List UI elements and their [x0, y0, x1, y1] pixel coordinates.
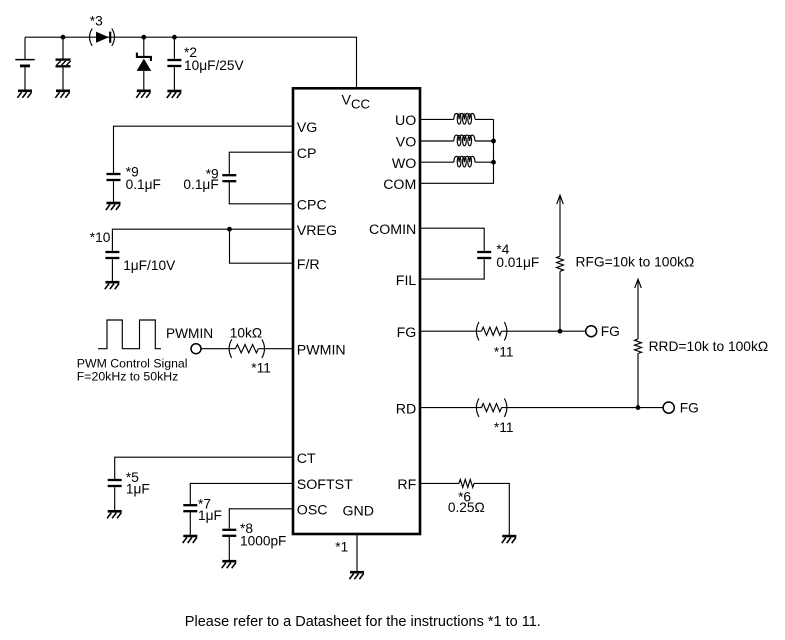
svg-text:WO: WO: [392, 156, 416, 172]
wire L3 to motor common: [475, 161, 494, 163]
svg-text:UO: UO: [395, 113, 416, 129]
node F (W phase junction): [491, 160, 496, 165]
svg-text:FG: FG: [397, 325, 417, 341]
IC U1 body: [293, 88, 420, 534]
capacitor C2 *2 10uF/25V: [173, 37, 175, 59]
ground (GND pin): [349, 572, 364, 579]
svg-text:1μF: 1μF: [126, 481, 150, 496]
svg-text:1μF/10V: 1μF/10V: [123, 258, 176, 273]
resistor R6 *6 0.25 ohm: [459, 479, 474, 487]
svg-text:CPC: CPC: [297, 198, 327, 214]
svg-text:VG: VG: [297, 120, 318, 136]
svg-text:RF: RF: [397, 477, 416, 493]
node H (RD/RRD junction): [636, 405, 641, 410]
capacitor C5 *10 1uF/10V: [105, 252, 119, 258]
node B (rail/zener junction): [141, 35, 146, 40]
wire CT pin: [115, 457, 293, 479]
svg-text:1μF: 1μF: [198, 508, 222, 523]
wire UO pin: [420, 118, 454, 120]
node G (FG/RFG junction): [558, 329, 563, 334]
wire R4 to RD terminal: [502, 407, 664, 409]
node D (VREG/FR junction): [227, 227, 232, 232]
wire F/R pin: [230, 229, 294, 263]
capacitor C7 *7 1uF: [183, 505, 197, 511]
capacitor C8 *8 1000pF: [222, 530, 236, 536]
svg-text:VO: VO: [396, 135, 417, 151]
inductor L2 (motor V phase): [454, 135, 475, 146]
svg-text:GND: GND: [343, 503, 375, 519]
svg-text:0.25Ω: 0.25Ω: [448, 500, 485, 515]
svg-text:F/R: F/R: [297, 257, 320, 273]
wire VG pin: [114, 126, 294, 173]
capacitor C3 *9 0.1uF: [107, 174, 121, 180]
ground (RF): [502, 536, 517, 543]
svg-text:SOFTST: SOFTST: [297, 477, 353, 493]
ground (C3): [106, 203, 121, 210]
PWM square wave source: [98, 320, 161, 349]
resistor R4 *11 (RD, in parentheses): [476, 398, 479, 417]
zener diode D2: [143, 37, 145, 57]
wire R2 to FG terminal: [502, 330, 586, 332]
svg-text:*11: *11: [494, 420, 514, 435]
node E (V phase junction): [491, 139, 496, 144]
resistor R1 10kOhm *11: [229, 339, 232, 358]
svg-text:10μF/25V: 10μF/25V: [184, 58, 244, 73]
wire RF pin: [420, 482, 459, 484]
capacitor C6 *5 1uF: [108, 480, 122, 486]
ground (C6): [107, 511, 122, 518]
inductor L1 (motor U phase): [454, 114, 475, 125]
capacitor C4 *9 0.1uF (CP-CPC): [222, 175, 236, 181]
svg-text:RFG=10k to 100kΩ: RFG=10k to 100kΩ: [576, 255, 695, 270]
svg-text:VCC: VCC: [342, 93, 371, 112]
ground (C5): [105, 282, 120, 289]
svg-text:CT: CT: [297, 451, 316, 467]
ground (C1): [55, 91, 70, 98]
wire CP pin: [229, 152, 293, 174]
inductor L3 (motor W phase): [454, 156, 475, 167]
svg-text:RD: RD: [396, 401, 417, 417]
svg-text:FG: FG: [601, 324, 620, 339]
svg-text:*3: *3: [90, 13, 103, 28]
svg-text:COMIN: COMIN: [369, 222, 416, 238]
wire GND pin *1: [356, 534, 358, 572]
svg-text:FIL: FIL: [396, 273, 417, 289]
svg-text:*1: *1: [335, 539, 348, 554]
resistor R2 *11 (FG, in parentheses): [476, 322, 479, 341]
svg-text:1000pF: 1000pF: [240, 534, 286, 549]
wire OSC pin: [229, 509, 293, 529]
node C (rail/C2 junction): [172, 35, 177, 40]
wire FG pin to R2: [420, 330, 482, 332]
node A (rail/electrolytic junction): [61, 35, 66, 40]
wire FIL pin: [420, 259, 484, 279]
arrow (RFG up): [557, 195, 564, 204]
svg-text:*11: *11: [251, 360, 271, 375]
wire R1 to PWMIN pin: [258, 348, 293, 350]
wire SOFTST pin: [190, 483, 293, 504]
svg-text:0.1μF: 0.1μF: [126, 177, 161, 192]
wire COMIN pin: [420, 228, 484, 251]
svg-text:*11: *11: [494, 344, 514, 359]
svg-text:PWM Control Signal: PWM Control Signal: [77, 357, 188, 371]
svg-text:0.1μF: 0.1μF: [183, 177, 218, 192]
ground (battery): [17, 91, 32, 98]
battery B1: [24, 37, 26, 59]
svg-text:COM: COM: [383, 177, 416, 193]
wire VCC top rail: [25, 37, 357, 88]
svg-text:F=20kHz to 50kHz: F=20kHz to 50kHz: [77, 369, 179, 383]
wire PWMIN to R1: [201, 348, 235, 350]
wire CPC pin: [229, 182, 293, 203]
ground (C7): [183, 536, 198, 543]
svg-text:CP: CP: [297, 146, 317, 162]
svg-text:PWMIN: PWMIN: [297, 342, 346, 358]
capacitor C1 (electrolytic, hatched): [62, 37, 64, 58]
wire VREG pin: [112, 229, 293, 251]
svg-text:RRD=10k to 100kΩ: RRD=10k to 100kΩ: [649, 339, 769, 354]
svg-text:10kΩ: 10kΩ: [230, 326, 262, 341]
wire RD pin to R4: [420, 407, 482, 409]
resistor R3 RFG vertical: [559, 271, 561, 331]
arrow (RRD up): [635, 279, 642, 288]
wire VO pin: [420, 140, 454, 142]
resistor R5 RRD vertical: [637, 354, 639, 408]
ground (C8): [222, 561, 237, 568]
wire R6 to ground: [474, 483, 509, 535]
wire COM pin / motor common vertical: [420, 119, 494, 183]
svg-text:Please refer to a Datasheet fo: Please refer to a Datasheet for the inst…: [185, 614, 541, 630]
terminal RD output FG: [663, 402, 674, 413]
svg-text:PWMIN: PWMIN: [166, 326, 213, 341]
svg-text:OSC: OSC: [297, 503, 328, 519]
capacitor C9 *4 0.01uF: [477, 252, 491, 258]
ground (C2): [167, 91, 182, 98]
svg-text:VREG: VREG: [297, 223, 337, 239]
svg-text:FG: FG: [680, 401, 699, 416]
svg-text:*10: *10: [90, 230, 111, 245]
wire L2 to motor common: [475, 140, 494, 142]
wire L1 to motor common: [475, 118, 494, 120]
svg-text:0.01μF: 0.01μF: [496, 255, 539, 270]
ground (D2): [136, 91, 151, 98]
terminal FG output: [586, 326, 597, 337]
wire WO pin: [420, 161, 454, 163]
